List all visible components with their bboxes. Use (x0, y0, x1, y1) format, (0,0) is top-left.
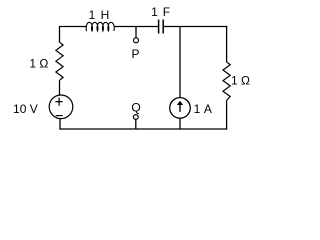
wire top-left horizontal (60, 26, 87, 28)
wire capacitor to top-right corner (164, 26, 227, 28)
current source arrow (179, 104, 181, 112)
resistor R2 zigzag (223, 62, 230, 100)
voltage source plus sign (55, 98, 62, 106)
wire inductor to capacitor (114, 26, 158, 28)
wire left rail upper (59, 26, 61, 42)
current source I1 circle (170, 98, 191, 119)
node Q stub (135, 119, 137, 129)
wire voltage source to bottom-left corner (59, 118, 61, 129)
node P stub (135, 27, 137, 38)
node P terminal circle (134, 38, 139, 43)
capacitor C1 right plate (162, 20, 164, 34)
voltage source minus sign (56, 115, 63, 117)
svg-text:Q: Q (131, 100, 140, 114)
inductor L1 coil (86, 22, 114, 31)
resistor R1 zigzag (56, 42, 63, 80)
wire junction to current source (179, 27, 181, 99)
capacitor C1 left plate (158, 20, 160, 34)
wire resistor to voltage source (59, 80, 61, 95)
svg-text:1 H: 1 H (89, 8, 111, 22)
node Q terminal circle (133, 115, 138, 120)
wire right rail upper (226, 26, 228, 62)
svg-text:P: P (131, 47, 139, 61)
wire bottom horizontal (60, 128, 227, 130)
voltage source V1 circle (49, 95, 73, 119)
wire right rail lower (226, 100, 228, 129)
svg-text:10 V: 10 V (13, 102, 38, 116)
svg-text:1 A: 1 A (194, 102, 213, 116)
wire current source to bottom (179, 118, 181, 129)
svg-text:1 Ω: 1 Ω (29, 57, 48, 71)
svg-text:1 F: 1 F (151, 5, 171, 19)
svg-text:1 Ω: 1 Ω (231, 74, 250, 88)
